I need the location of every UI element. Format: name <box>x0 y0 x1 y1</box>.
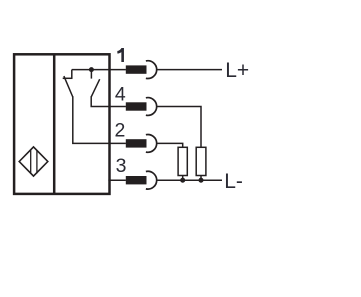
NC contact moving arm <box>64 76 73 97</box>
svg-text:L+: L+ <box>225 59 249 82</box>
NC contact fixed terminal drop <box>71 70 73 79</box>
wire L+ <box>157 69 222 71</box>
svg-text:4: 4 <box>115 83 126 105</box>
wire pin2 to load R1 <box>157 143 183 148</box>
NO contact fixed stub <box>90 70 92 79</box>
wire NC to pin2 <box>73 96 126 143</box>
wire pin3 <box>108 179 126 181</box>
NC contact stop bar <box>63 77 73 79</box>
connector pin bar 3 <box>126 176 147 184</box>
divider line <box>53 54 56 194</box>
connector socket arc pin2 <box>146 135 157 153</box>
NO contact moving arm <box>91 79 100 97</box>
wire L- <box>157 179 222 181</box>
R2 bottom stub <box>200 176 202 181</box>
wire pin4 to load R2 <box>157 107 201 149</box>
sensor body outline <box>14 54 109 194</box>
load resistor R2 <box>196 147 206 175</box>
wire NO to pin4 <box>91 96 126 106</box>
junction node R2 / L- <box>199 178 204 183</box>
load resistor R1 <box>178 147 187 175</box>
svg-text:L-: L- <box>224 170 243 193</box>
connector pin bar 4 <box>126 102 147 110</box>
junction node R1 / L- <box>180 178 185 183</box>
junction node on pin1 rail <box>89 67 94 72</box>
diamond inner line left <box>30 150 32 174</box>
svg-text:2: 2 <box>114 120 125 142</box>
connector pin bar 1 <box>126 65 147 73</box>
connector socket arc pin3 <box>146 171 157 189</box>
R1 bottom stub <box>182 176 184 181</box>
svg-text:3: 3 <box>116 155 127 177</box>
inductive sensor symbol (diamond) <box>19 147 48 176</box>
connector socket arc pin1 <box>146 61 157 79</box>
connector pin bar 2 <box>126 139 147 147</box>
pin number 1 <box>117 48 124 62</box>
connector socket arc pin4 <box>146 98 157 116</box>
diamond inner line right <box>36 150 38 173</box>
wire pin1 (inside box to connector) <box>72 69 126 71</box>
